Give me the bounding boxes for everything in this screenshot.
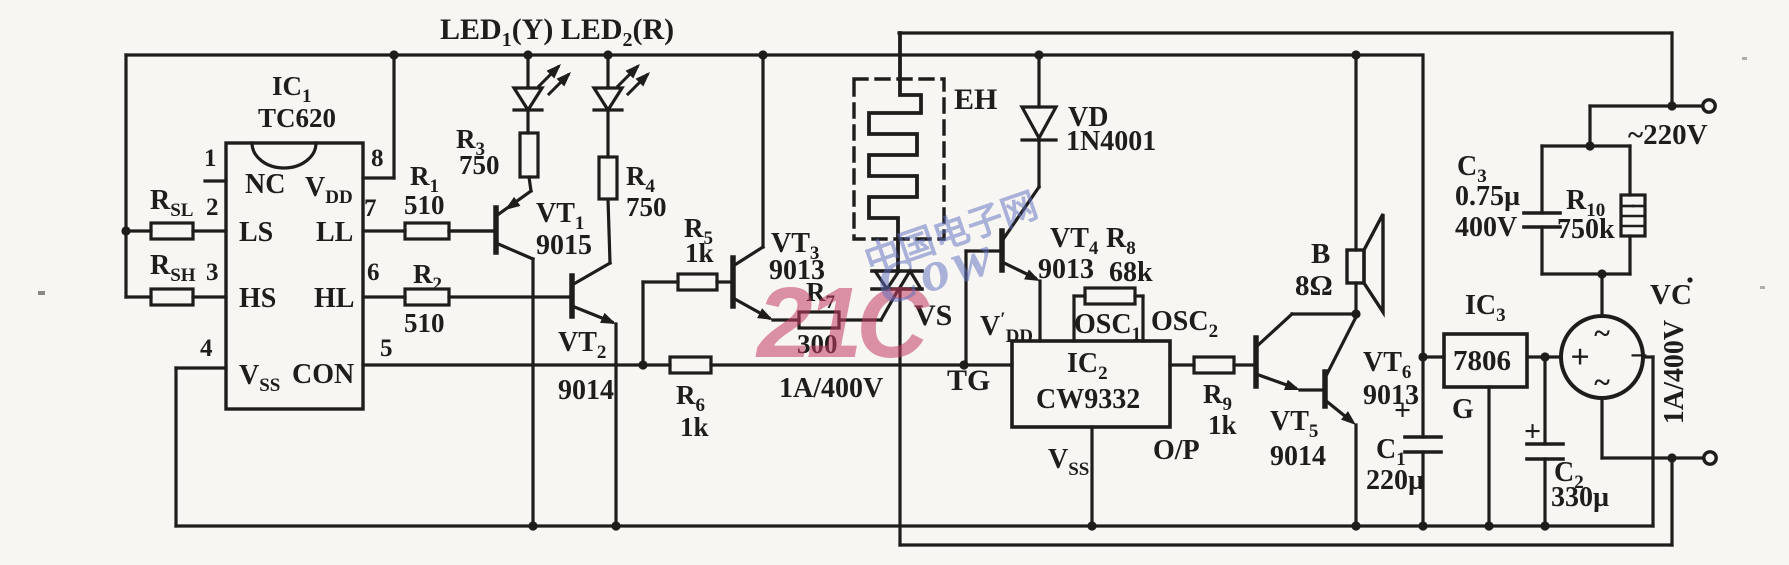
svg-text:1: 1 <box>204 145 217 172</box>
svg-text:CON: CON <box>292 359 354 390</box>
svg-text:~220V: ~220V <box>1628 119 1708 151</box>
svg-text:0.75µ: 0.75µ <box>1455 181 1520 212</box>
svg-text:220µ: 220µ <box>1366 465 1424 496</box>
svg-text:G: G <box>1452 394 1474 425</box>
svg-text:750: 750 <box>626 192 667 222</box>
svg-text:B: B <box>1311 238 1330 270</box>
svg-text:4: 4 <box>200 335 213 362</box>
svg-text:HS: HS <box>239 283 276 314</box>
svg-text:8: 8 <box>371 145 384 172</box>
svg-text:9014: 9014 <box>1270 441 1326 472</box>
svg-text:1k: 1k <box>685 238 714 268</box>
svg-text:O/P: O/P <box>1153 435 1200 466</box>
svg-text:7: 7 <box>364 195 377 222</box>
svg-text:OSC2: OSC2 <box>1151 306 1218 342</box>
svg-text:LL: LL <box>316 217 353 248</box>
svg-text:1N4001: 1N4001 <box>1066 126 1156 157</box>
svg-text:1A/400V: 1A/400V <box>1659 320 1690 424</box>
svg-text:330µ: 330µ <box>1551 482 1609 513</box>
svg-text:~: ~ <box>1594 317 1610 350</box>
svg-text:+: + <box>1570 339 1589 376</box>
svg-text:+: + <box>1524 415 1541 448</box>
svg-text:750k: 750k <box>1557 214 1615 245</box>
svg-text:750: 750 <box>459 150 500 180</box>
svg-text:8Ω: 8Ω <box>1295 270 1333 302</box>
svg-text:68k: 68k <box>1109 257 1153 288</box>
svg-text:3: 3 <box>206 259 219 286</box>
svg-text:LS: LS <box>239 217 273 248</box>
svg-text:1k: 1k <box>680 412 709 442</box>
svg-text:TC620: TC620 <box>258 103 336 133</box>
svg-text:+: + <box>1394 394 1411 427</box>
svg-text:TG: TG <box>947 364 990 397</box>
svg-text:5: 5 <box>380 335 393 362</box>
svg-text:EH: EH <box>954 83 997 116</box>
svg-text:7806: 7806 <box>1453 345 1511 377</box>
svg-text:400V: 400V <box>1455 212 1517 243</box>
svg-text:NC: NC <box>245 169 285 200</box>
svg-text:CW9332: CW9332 <box>1036 384 1140 415</box>
svg-text:LED1(Y) LED2(R): LED1(Y) LED2(R) <box>440 13 674 51</box>
svg-text:510: 510 <box>404 308 445 338</box>
svg-text:−: − <box>1630 337 1648 373</box>
svg-text:VC: VC <box>1650 279 1692 311</box>
svg-text:1k: 1k <box>1208 410 1237 440</box>
svg-text:9015: 9015 <box>536 230 592 261</box>
svg-text:9013: 9013 <box>1038 254 1094 285</box>
svg-text:HL: HL <box>314 283 354 314</box>
svg-text:OSC1: OSC1 <box>1074 309 1141 345</box>
svg-text:~: ~ <box>1594 366 1610 399</box>
svg-text:6: 6 <box>367 259 380 286</box>
svg-text:510: 510 <box>404 190 445 220</box>
svg-text:2: 2 <box>206 194 219 221</box>
svg-text:9014: 9014 <box>558 375 614 406</box>
